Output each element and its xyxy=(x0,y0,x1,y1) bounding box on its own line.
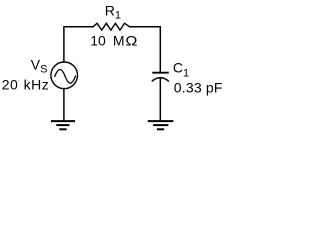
capacitor C1 curved bottom plate xyxy=(152,78,168,81)
svg-text:20 kHz: 20 kHz xyxy=(2,77,50,93)
ground (left) xyxy=(52,120,74,122)
resistor R1 zigzag xyxy=(93,23,130,30)
svg-text:0.33 pF: 0.33 pF xyxy=(174,80,223,96)
wire: source bottom to left ground xyxy=(63,89,65,121)
voltage source VS circle xyxy=(51,62,78,89)
voltage source VS sine wave xyxy=(55,70,76,84)
svg-text:10MΩ: 10MΩ xyxy=(90,32,137,48)
wire: R1 to top-right corner down to capacitor C1 xyxy=(130,27,161,72)
ground (right) xyxy=(149,120,173,122)
wire: top-left segment from source top corner to R1 xyxy=(64,27,93,62)
svg-text:C1: C1 xyxy=(173,60,189,80)
svg-text:VS: VS xyxy=(31,56,48,75)
wire: C1 bottom to right ground xyxy=(159,79,161,121)
svg-text:R1: R1 xyxy=(105,3,121,22)
capacitor C1 top plate xyxy=(153,72,168,74)
